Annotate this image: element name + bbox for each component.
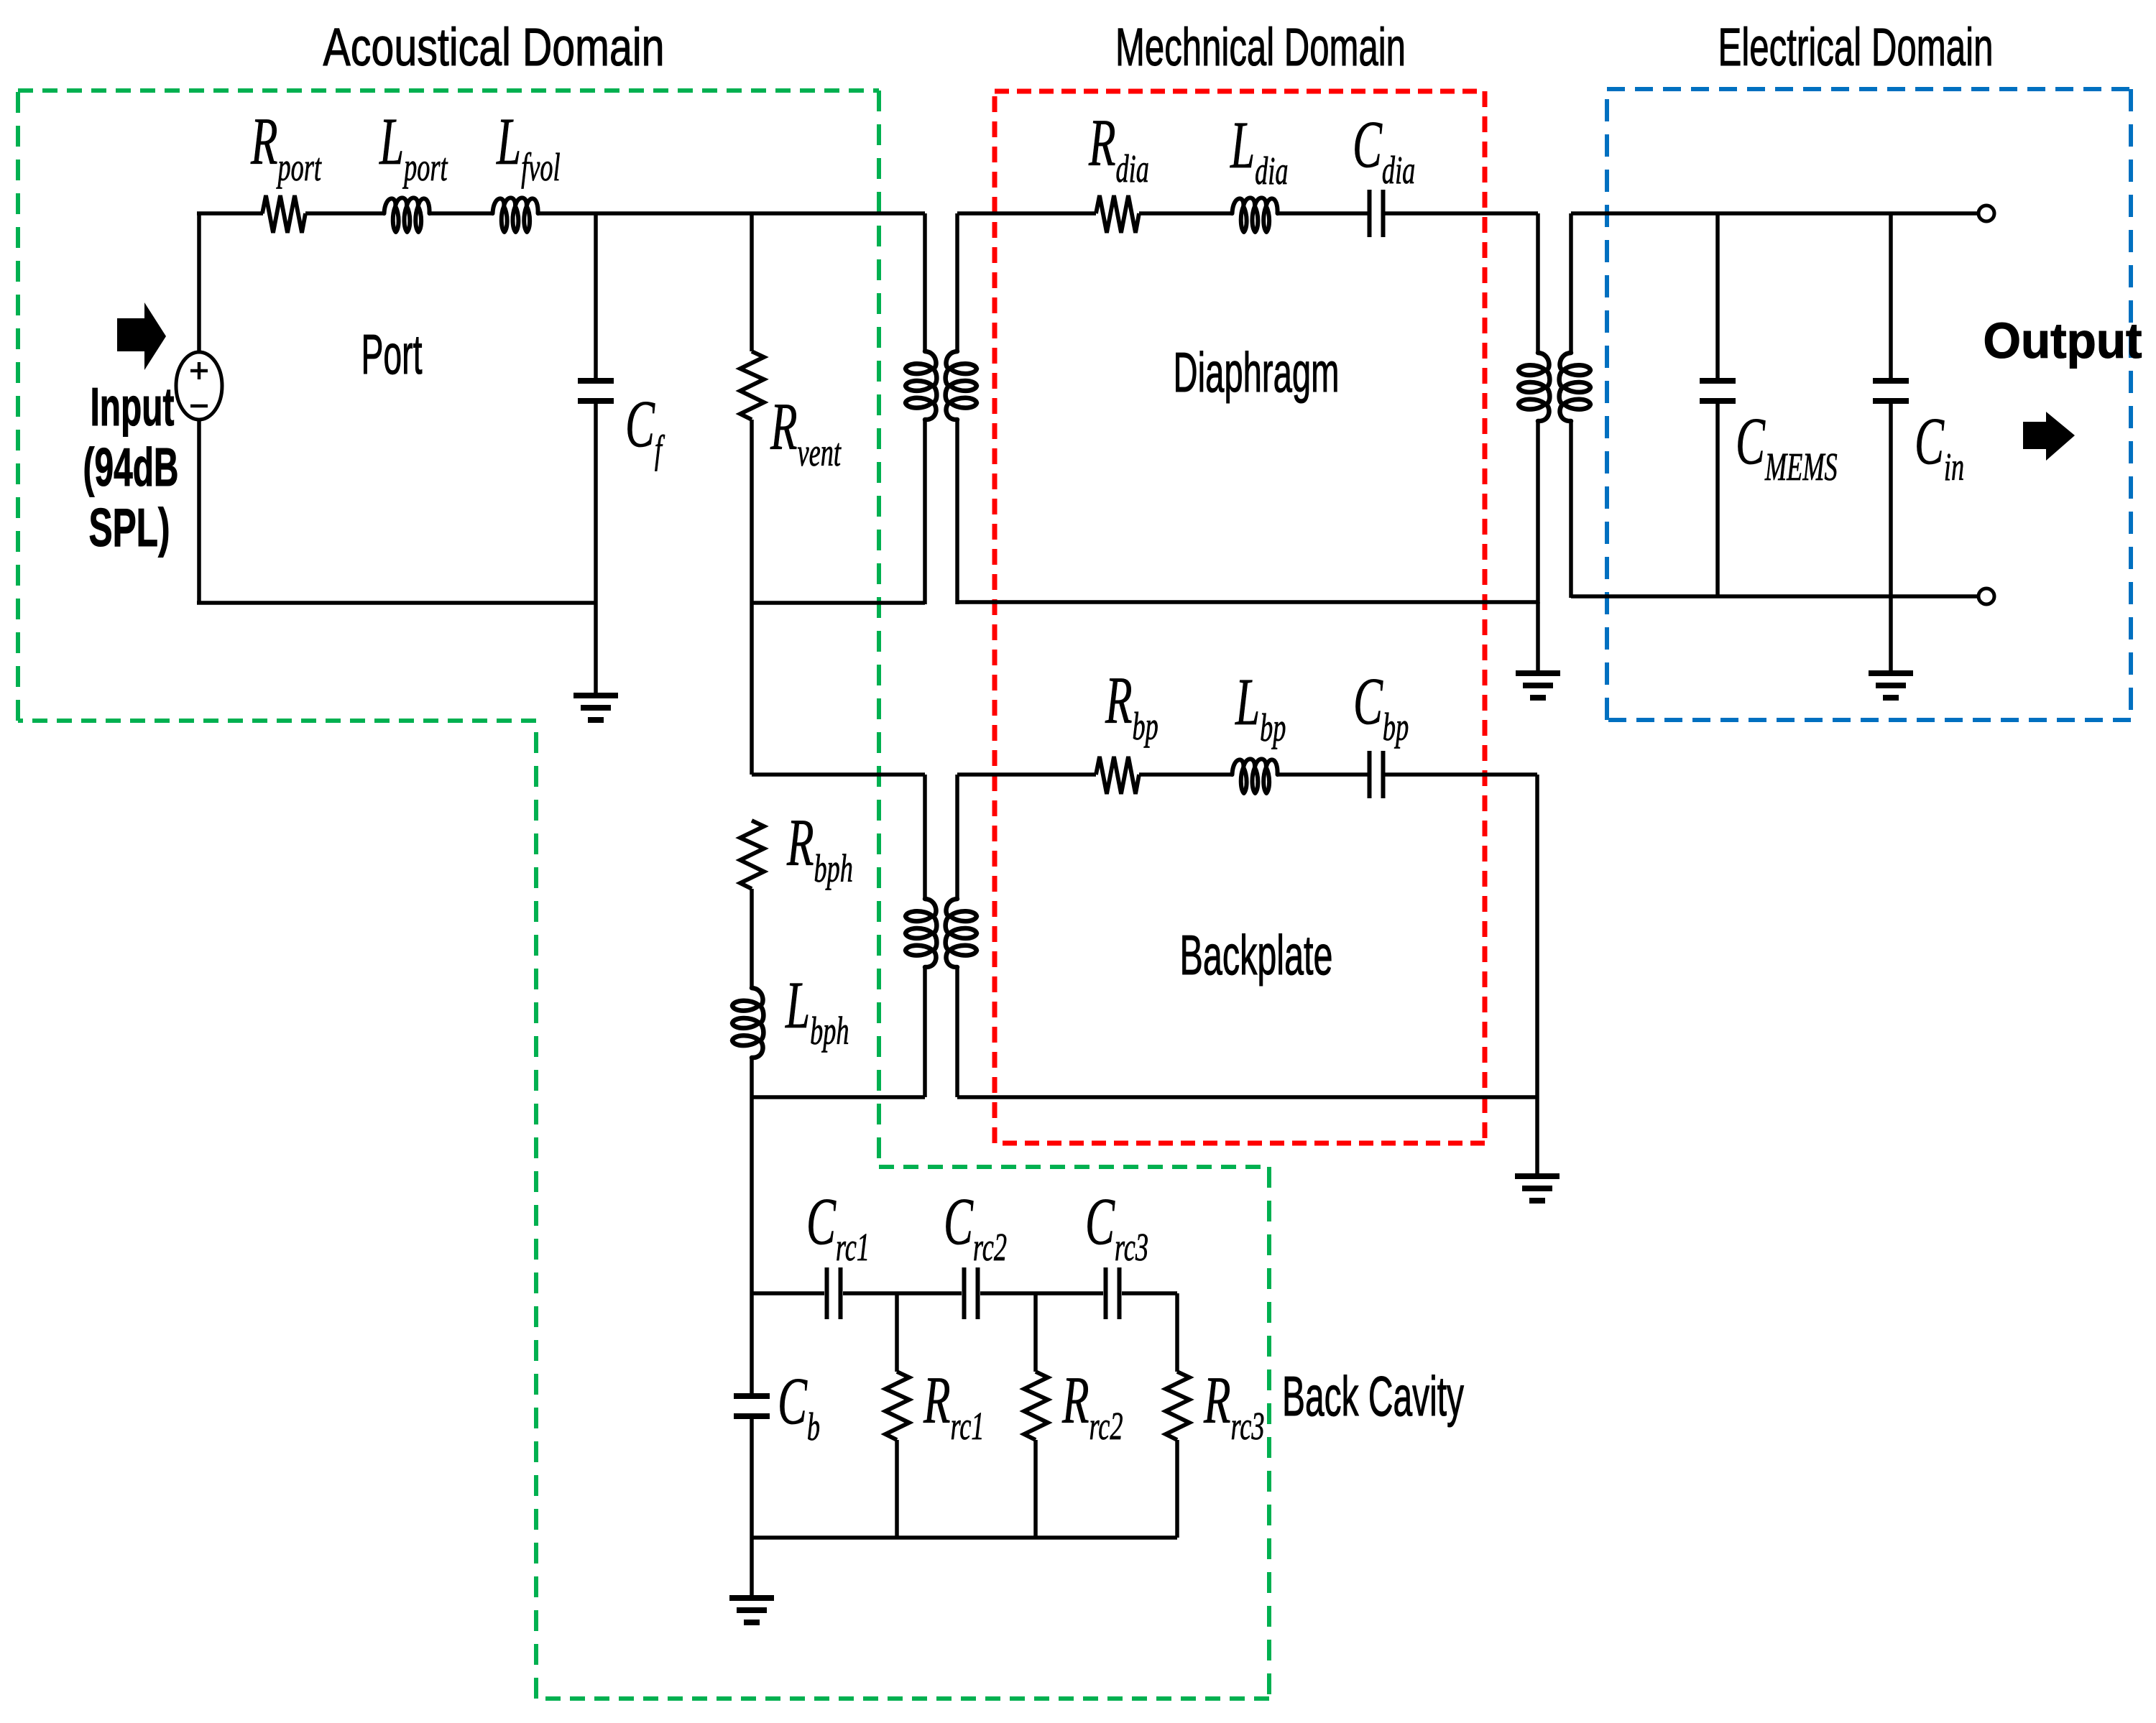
resistor R_rc1 [885,1372,909,1440]
inductor L_bph [732,988,763,1058]
transformer T2 secondary winding [946,775,977,1097]
svg-text:Output: Output [1984,313,2142,369]
ground under diaphragm right [1516,673,1560,698]
inductor L_port [384,198,430,232]
label C_dia [1353,108,1415,193]
wire C_MEMS bottom [1715,401,1720,596]
resistor R_rc3 [1166,1372,1189,1440]
wire R_rc3 to bottom [1175,1440,1179,1538]
wire Rvent to T1 bottom [752,601,925,605]
inductor L_fvol [493,198,538,232]
label Port [361,323,423,386]
capacitor C_dia [1370,190,1383,237]
resistor R_dia [1096,195,1139,233]
svg-text:(94dB: (94dB [83,437,179,497]
wire R_dia to L_dia [1139,211,1233,216]
wire Crc2 to Crc3 [980,1291,1103,1295]
wire R_bph to L_bph [750,889,754,988]
wire R_vent down through node [750,420,754,775]
wire Crc3 to corner [1122,1291,1177,1295]
resistor R_bp [1096,757,1139,794]
wire T2 to R_bp [957,772,1096,777]
wire R_rc2 to bottom [1033,1440,1038,1538]
ground under C_f [573,696,618,720]
label Diaphragm [1174,341,1340,404]
label R_rc1 [923,1364,984,1449]
wire C_dia to T3 [1385,211,1538,216]
capacitor C_rc1 [827,1267,841,1319]
wire back cavity bottom [752,1535,1177,1540]
ground stem back cavity [750,1538,754,1598]
wire top to C_f [594,213,598,379]
label R_rc3 [1203,1364,1264,1449]
svg-text:Acoustical Domain: Acoustical Domain [323,17,665,77]
resistor R_vent [740,351,764,420]
label R_vent [770,391,842,475]
wire C_MEMS top [1715,213,1720,381]
wire top to R_vent [750,213,754,351]
wire diaphragm bottom [957,600,1538,604]
wire source bottom [197,420,201,604]
wire R_bp to L_bp [1139,772,1233,777]
resistor R_bph [740,821,764,889]
transformer T3 secondary winding [1560,213,1590,598]
wire C_f to ground [594,403,598,696]
ground stem under backplate [1535,1097,1539,1176]
wire C_bp to right [1385,772,1537,777]
wire R_port to L_port [305,211,384,216]
wire Crc1 to Crc2 [843,1291,962,1295]
capacitor C_bp [1370,751,1383,798]
label Back Cavity [1282,1364,1464,1428]
wire backplate right [1535,775,1539,1097]
transformer T3 primary winding [1519,213,1549,604]
inductor L_dia [1233,198,1278,232]
svg-text:Diaphragm: Diaphragm [1174,341,1340,404]
resistor R_port [262,195,305,233]
output terminal bottom [1978,588,1994,604]
ground under backplate [1515,1176,1560,1201]
output arrow [2023,412,2075,461]
wire C_in bottom [1889,401,1893,596]
title Acoustical Domain [323,17,665,77]
wire back cavity top 1 [752,1291,824,1295]
transformer T2 primary winding [906,775,936,1097]
wire port loop bottom [197,601,597,605]
output terminal top [1978,205,1994,221]
label L_dia [1230,109,1288,193]
capacitor C_b [734,1396,770,1416]
voltage source V1 (Input 94dB SPL) [176,352,222,420]
label Input (94dB SPL) [83,377,179,558]
blue dashed box - Electrical Domain outline [1607,89,2131,720]
label L_port [379,106,448,190]
wire backplate bottom [957,1095,1537,1099]
input arrow [117,302,166,370]
transformer T1 secondary winding [946,213,977,604]
label C_in [1915,405,1964,489]
wire top-left [197,211,263,216]
label Output [1984,313,2142,369]
svg-text:Backplate: Backplate [1180,923,1333,987]
svg-text:Electrical Domain: Electrical Domain [1718,17,1994,77]
capacitor C_f [578,381,614,401]
wire L_port to L_fvol [430,211,493,216]
capacitor C_rc3 [1106,1267,1120,1319]
ground stem under diaphragm right [1536,602,1540,673]
wire L_bp to C_bp [1277,772,1368,777]
label L_bp [1235,666,1286,750]
wire Rbph loop top [752,772,925,777]
label R_dia [1088,107,1149,191]
wire L_bph to bottom [750,1058,754,1097]
label Backplate [1180,923,1333,987]
resistor R_rc2 [1024,1372,1048,1440]
label L_fvol [496,106,560,190]
label R_bp [1105,665,1158,749]
wire R_rc1 to bottom [895,1440,899,1538]
title Mechnical Domain [1115,17,1406,77]
label R_bph [786,807,853,891]
wire Rbph column down [750,1097,754,1293]
label L_bph [785,969,849,1053]
wire source top [197,213,201,352]
wire corner down to R_rc3 [1175,1293,1179,1372]
label C_MEMS [1736,405,1838,489]
label R_rc2 [1061,1364,1123,1449]
svg-text:Port: Port [361,323,423,386]
ground back cavity [729,1598,774,1622]
wire electrical top [1571,211,1978,216]
capacitor C_MEMS [1700,381,1736,401]
label C_b [778,1365,820,1449]
wire node to R_rc2 [1033,1293,1038,1372]
red dashed box - Mechanical Domain outline [995,91,1485,1143]
svg-text:Mechnical Domain: Mechnical Domain [1115,17,1406,77]
wire L_fvol to transformer T1 [538,211,925,216]
label C_bp [1353,665,1409,749]
svg-text:SPL): SPL) [89,497,170,558]
ground under C_in [1869,673,1913,698]
capacitor C_rc2 [964,1267,978,1319]
capacitor C_in [1873,381,1909,401]
label C_rc2 [944,1186,1007,1270]
label C_rc3 [1085,1186,1148,1270]
wire Cb top [750,1293,754,1394]
title Electrical Domain [1718,17,1994,77]
wire T1 to R_dia [957,211,1096,216]
label C_rc1 [806,1186,870,1270]
wire C_in to ground [1889,596,1893,673]
inductor L_bp [1233,759,1278,793]
svg-text:Back Cavity: Back Cavity [1282,1364,1464,1428]
wire L_dia to C_dia [1277,211,1368,216]
wire C_in top [1889,213,1893,381]
wire Rbph loop bottom [752,1095,925,1099]
label C_f [625,388,665,472]
green dashed box - Acoustical Domain outline [18,91,1269,1699]
label R_port [250,106,322,190]
transformer T1 primary winding [906,213,936,604]
wire electrical bottom [1571,594,1978,599]
wire node to R_rc1 [895,1293,899,1372]
svg-text:Input: Input [91,377,175,437]
wire Cb bottom [750,1418,754,1538]
